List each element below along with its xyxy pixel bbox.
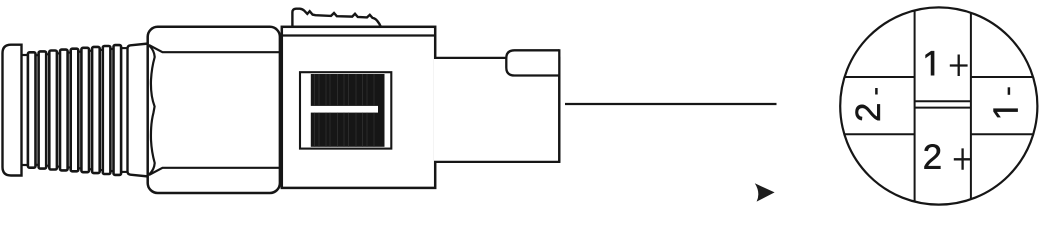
pinout row top-right line (971, 76, 1033, 78)
pinout row top-left line (845, 76, 915, 78)
pin label 2- minus sign (875, 88, 878, 95)
strain relief rib 9 (114, 45, 122, 175)
cable bushing (3, 45, 22, 176)
pinout circle (840, 7, 1037, 204)
label plate border (300, 72, 391, 148)
hex flat wavy edge (149, 46, 154, 175)
pin label 2- digit (855, 104, 879, 120)
housing top band line (282, 34, 435, 36)
strain relief rib 3 (49, 51, 57, 170)
strain relief rib 4 (60, 50, 68, 171)
hex chuck nut body (148, 27, 280, 193)
strain relief rib 1 (28, 52, 36, 167)
pin label 1- minus sign (1008, 87, 1011, 95)
label barcode right vertical bar (378, 74, 385, 147)
hex chamfer line bottom (149, 168, 280, 175)
label barcode stripes (315, 74, 375, 147)
pointer arrow (755, 183, 775, 201)
pin label 1- digit (994, 109, 1018, 118)
strain relief rib 2 (39, 51, 47, 168)
hex chamfer line top (149, 45, 280, 52)
pin label 1+ digit (926, 51, 935, 75)
strain relief rib 8 (103, 46, 111, 174)
pinout column left line (914, 11, 916, 202)
pinout row bottom-left line (845, 133, 915, 135)
pinout center divider upper (915, 100, 971, 102)
strain relief rib 6 (81, 48, 89, 172)
strain relief neck line top (21, 54, 30, 56)
pin label 2+ plus sign (954, 148, 972, 169)
insert tip body (434, 58, 559, 162)
strain relief valley lines (34, 48, 129, 172)
pin label 2+ digit (924, 144, 940, 168)
pinout row bottom-right line (971, 133, 1033, 135)
pin label 1+ plus sign (950, 55, 968, 77)
main housing (282, 27, 435, 188)
latch lever with serrations (292, 9, 381, 27)
collar between strain relief and chuck nut (128, 44, 149, 177)
lead line wire (565, 103, 777, 105)
pinout center divider lower (915, 107, 971, 109)
strain relief rib 7 (92, 47, 100, 173)
strain relief rib 5 (71, 49, 79, 172)
label barcode top bar (311, 74, 378, 106)
label barcode bottom bar (311, 113, 378, 147)
insert tip tab (506, 50, 559, 75)
pinout column right line (970, 13, 972, 199)
insert tip right edge (558, 49, 560, 162)
strain relief neck line bottom (21, 164, 30, 166)
